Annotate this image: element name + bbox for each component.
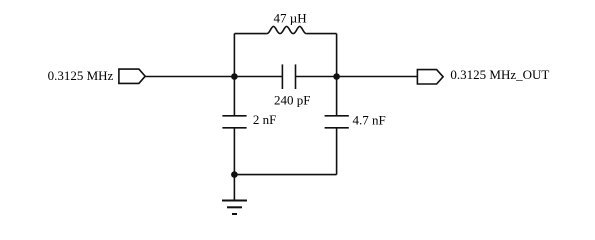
- svg-text:47 µH: 47 µH: [274, 10, 307, 25]
- svg-text:0.3125 MHz: 0.3125 MHz: [48, 68, 114, 83]
- svg-text:4.7 nF: 4.7 nF: [353, 113, 386, 128]
- svg-text:0.3125 MHz_OUT: 0.3125 MHz_OUT: [450, 67, 549, 82]
- svg-text:240 pF: 240 pF: [274, 92, 310, 107]
- svg-text:2 nF: 2 nF: [253, 112, 276, 127]
